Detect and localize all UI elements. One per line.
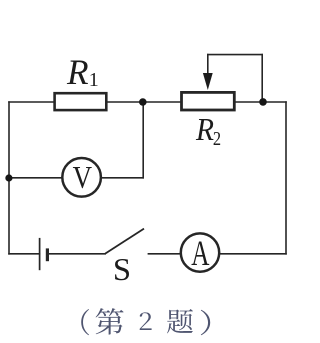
svg-text:R: R xyxy=(66,52,89,92)
rheostat wiper arrowhead xyxy=(203,73,213,90)
svg-text:2: 2 xyxy=(213,128,221,150)
wire top rail xyxy=(9,101,286,103)
voltmeter letter V xyxy=(73,161,92,196)
svg-text:A: A xyxy=(191,233,210,274)
wire wiper stem xyxy=(207,55,209,76)
wire right rail xyxy=(285,102,287,254)
wire wiper top horizontal xyxy=(208,54,262,56)
battery short plate (negative) xyxy=(46,248,49,261)
wire wiper right vertical xyxy=(261,55,263,102)
switch label S xyxy=(113,251,131,287)
node junction dot R1-R2 xyxy=(139,98,147,106)
wire battery to switch pivot xyxy=(48,253,105,255)
svg-text:1: 1 xyxy=(89,69,99,91)
switch S lever xyxy=(105,229,144,254)
voltmeter U1 circle xyxy=(62,158,101,197)
resistor R1 box xyxy=(55,93,107,110)
node junction dot R2 right xyxy=(259,98,267,106)
caption open paren xyxy=(81,309,89,335)
wire left rail xyxy=(8,102,10,254)
wire switch to ammeter and right corner xyxy=(148,253,286,255)
label R2 subscript 2 xyxy=(213,128,221,150)
wire voltmeter branch horizontal xyxy=(9,177,143,179)
caption digit 2 xyxy=(140,312,152,330)
svg-text:R: R xyxy=(195,112,214,147)
wire voltmeter branch vertical xyxy=(142,102,144,178)
caption close paren xyxy=(201,310,210,335)
svg-text:V: V xyxy=(73,161,92,196)
battery long plate (positive) xyxy=(39,238,41,270)
caption char di (第) xyxy=(96,308,124,334)
svg-text:S: S xyxy=(113,251,131,287)
label R1 xyxy=(66,52,89,92)
node junction dot left xyxy=(5,174,12,181)
caption char ti (题) xyxy=(167,309,193,333)
ammeter letter A xyxy=(191,233,210,274)
wire bottom left segment xyxy=(9,253,40,255)
rheostat R2 box xyxy=(182,92,235,110)
ammeter U2 circle xyxy=(181,233,219,271)
label R2 xyxy=(195,112,214,147)
